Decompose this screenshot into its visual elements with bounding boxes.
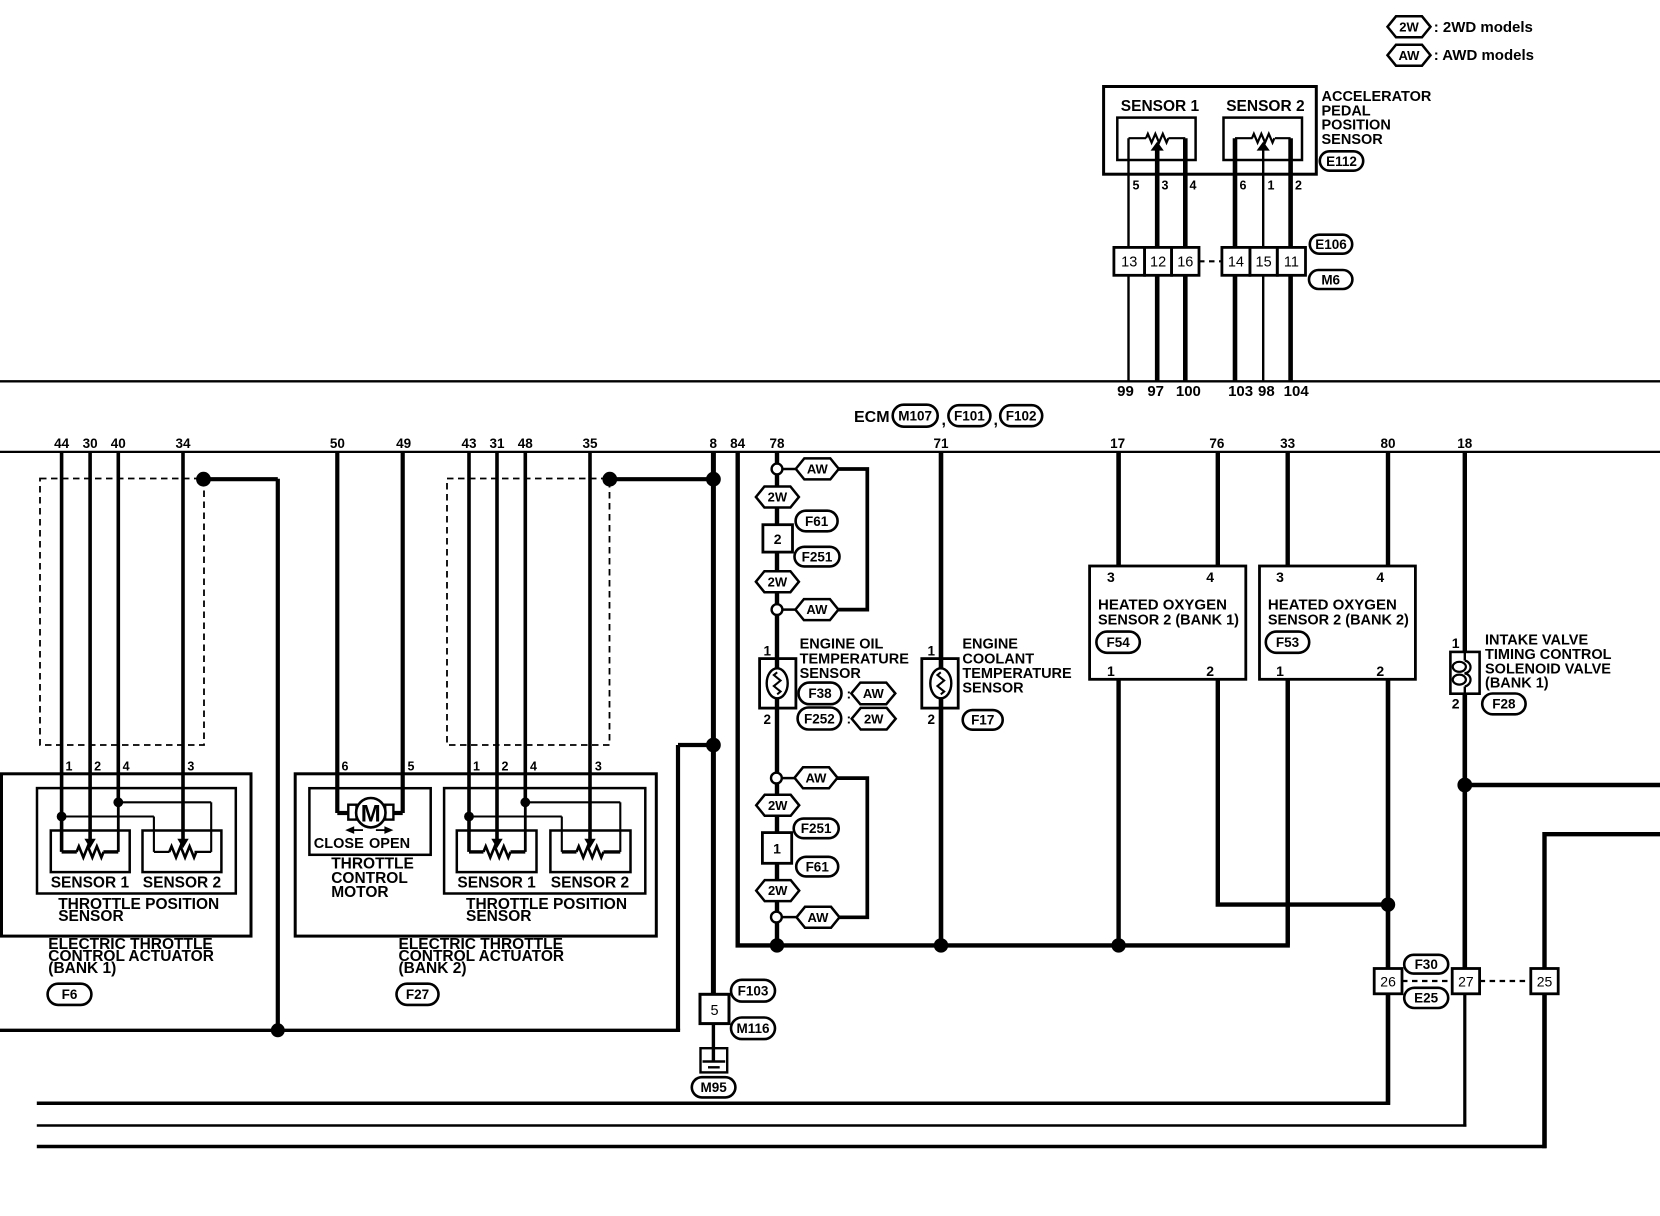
svg-text:1: 1 [66, 759, 73, 773]
svg-text:2W: 2W [768, 490, 788, 505]
svg-text:15: 15 [1256, 255, 1272, 271]
svg-text:TEMPERATURE: TEMPERATURE [962, 666, 1072, 682]
svg-text:49: 49 [396, 436, 411, 451]
svg-text:F38: F38 [808, 686, 832, 701]
svg-text:2: 2 [763, 712, 771, 727]
svg-text:SENSOR: SENSOR [962, 681, 1024, 697]
svg-text:M116: M116 [736, 1021, 770, 1036]
svg-text:2: 2 [774, 531, 782, 547]
svg-text:27: 27 [1458, 974, 1474, 990]
svg-text:F27: F27 [406, 987, 429, 1002]
svg-text:F251: F251 [802, 549, 833, 564]
svg-text:F102: F102 [1006, 409, 1037, 424]
svg-text:F17: F17 [971, 713, 994, 728]
svg-text:SENSOR: SENSOR [466, 908, 531, 925]
svg-text:AW: AW [1399, 48, 1421, 63]
svg-text:1: 1 [763, 644, 771, 659]
svg-text:E112: E112 [1326, 154, 1357, 169]
svg-text:SENSOR 2 (BANK 2): SENSOR 2 (BANK 2) [1268, 612, 1409, 628]
svg-text:2: 2 [94, 759, 101, 773]
svg-text:AW: AW [808, 910, 830, 925]
svg-text:26: 26 [1380, 974, 1396, 990]
svg-text:F103: F103 [738, 984, 769, 999]
svg-text:HEATED OXYGEN: HEATED OXYGEN [1098, 596, 1227, 613]
svg-text:30: 30 [83, 436, 98, 451]
svg-text:COOLANT: COOLANT [962, 651, 1034, 667]
svg-text:48: 48 [518, 436, 534, 451]
svg-text:40: 40 [111, 436, 126, 451]
svg-text:SENSOR: SENSOR [800, 666, 862, 682]
svg-text:104: 104 [1284, 383, 1310, 400]
svg-text:4: 4 [1190, 179, 1197, 193]
svg-text:E106: E106 [1315, 237, 1347, 252]
svg-text:44: 44 [54, 436, 70, 451]
svg-text:SENSOR 2: SENSOR 2 [551, 875, 629, 892]
svg-text:13: 13 [1121, 255, 1137, 271]
svg-text:AW: AW [806, 770, 828, 785]
svg-text:4: 4 [1376, 569, 1384, 585]
svg-text:E25: E25 [1414, 991, 1439, 1006]
svg-text:M6: M6 [1321, 272, 1340, 287]
svg-text:2W: 2W [1399, 19, 1419, 34]
svg-text:: AWD models: : AWD models [1434, 47, 1534, 64]
svg-text:1: 1 [1452, 635, 1460, 651]
svg-text:AW: AW [806, 602, 828, 617]
svg-text:2W: 2W [768, 883, 788, 898]
svg-text:,: , [942, 412, 946, 429]
svg-text:SENSOR 1: SENSOR 1 [457, 875, 536, 892]
svg-text:2W: 2W [768, 798, 788, 813]
svg-text:2W: 2W [768, 574, 788, 589]
svg-text:2: 2 [1295, 179, 1302, 193]
svg-text:,: , [994, 412, 998, 429]
svg-text:78: 78 [769, 436, 785, 451]
svg-text:MOTOR: MOTOR [331, 884, 388, 901]
svg-text:SENSOR 1: SENSOR 1 [1121, 98, 1200, 115]
svg-text:SENSOR: SENSOR [58, 908, 123, 925]
svg-text:3: 3 [1276, 569, 1284, 585]
svg-text:SENSOR: SENSOR [1322, 132, 1384, 148]
svg-text:34: 34 [175, 436, 191, 451]
svg-text:SENSOR 1: SENSOR 1 [51, 875, 130, 892]
svg-text:1: 1 [773, 841, 781, 857]
svg-text:4: 4 [530, 759, 537, 773]
svg-text:71: 71 [933, 436, 949, 451]
svg-text:12: 12 [1150, 255, 1166, 271]
svg-text:: 2WD models: : 2WD models [1434, 19, 1533, 36]
svg-text:F30: F30 [1415, 957, 1438, 972]
svg-text:99: 99 [1117, 383, 1134, 400]
svg-text:(BANK 1): (BANK 1) [1485, 676, 1549, 692]
svg-text:ECM: ECM [854, 409, 890, 426]
svg-text:80: 80 [1380, 436, 1395, 451]
svg-text:2W: 2W [864, 711, 884, 726]
svg-text:SENSOR 2 (BANK 1): SENSOR 2 (BANK 1) [1098, 612, 1239, 628]
svg-text:1: 1 [927, 644, 935, 659]
svg-text:6: 6 [342, 759, 349, 773]
svg-text:50: 50 [330, 436, 345, 451]
svg-text:17: 17 [1110, 436, 1125, 451]
svg-text:3: 3 [187, 759, 194, 773]
svg-text:F252: F252 [804, 711, 835, 726]
svg-text:F251: F251 [801, 821, 832, 836]
svg-text:F61: F61 [805, 514, 829, 529]
svg-text:25: 25 [1537, 974, 1553, 990]
svg-text:6: 6 [1240, 179, 1247, 193]
svg-text:3: 3 [1107, 569, 1115, 585]
svg-text:4: 4 [1206, 569, 1214, 585]
svg-text:AW: AW [863, 686, 885, 701]
svg-text:33: 33 [1280, 436, 1296, 451]
svg-text:M107: M107 [898, 409, 932, 424]
svg-text:F54: F54 [1106, 635, 1130, 650]
svg-text:103: 103 [1228, 383, 1253, 400]
svg-text:F101: F101 [954, 409, 985, 424]
svg-text:35: 35 [582, 436, 598, 451]
svg-text:OPEN: OPEN [369, 836, 410, 852]
svg-text:2: 2 [1452, 696, 1460, 712]
svg-text:1: 1 [473, 759, 480, 773]
svg-text:2: 2 [1206, 663, 1214, 679]
svg-text:1: 1 [1268, 179, 1275, 193]
svg-text:F28: F28 [1492, 697, 1516, 712]
svg-text:TEMPERATURE: TEMPERATURE [800, 651, 910, 667]
svg-text:5: 5 [710, 1003, 718, 1019]
svg-text:14: 14 [1228, 255, 1244, 271]
svg-text:43: 43 [461, 436, 477, 451]
svg-text:ENGINE OIL: ENGINE OIL [800, 637, 884, 653]
svg-text:3: 3 [595, 759, 602, 773]
svg-text:SENSOR 2: SENSOR 2 [1226, 98, 1304, 115]
svg-text:18: 18 [1457, 436, 1473, 451]
svg-text:97: 97 [1147, 383, 1164, 400]
svg-text:76: 76 [1209, 436, 1225, 451]
svg-text:31: 31 [489, 436, 505, 451]
svg-text:M: M [361, 800, 381, 827]
svg-text:M95: M95 [700, 1080, 727, 1095]
svg-text:(BANK 1): (BANK 1) [48, 960, 116, 977]
svg-text:(BANK 2): (BANK 2) [399, 960, 467, 977]
svg-text:2: 2 [1376, 663, 1384, 679]
svg-text:8: 8 [709, 436, 717, 451]
svg-text:1: 1 [1107, 663, 1115, 679]
svg-text:5: 5 [408, 759, 415, 773]
svg-text:CLOSE: CLOSE [314, 836, 364, 852]
svg-text:4: 4 [123, 759, 130, 773]
svg-text:HEATED OXYGEN: HEATED OXYGEN [1268, 596, 1397, 613]
svg-text:5: 5 [1133, 179, 1140, 193]
svg-text:F6: F6 [62, 987, 78, 1002]
svg-text:84: 84 [730, 436, 746, 451]
svg-text:11: 11 [1284, 255, 1299, 271]
svg-text:2: 2 [927, 712, 935, 727]
svg-text:F61: F61 [806, 859, 830, 874]
svg-text:98: 98 [1258, 383, 1275, 400]
svg-text:1: 1 [1276, 663, 1284, 679]
svg-text:SENSOR 2: SENSOR 2 [143, 875, 221, 892]
svg-text:F53: F53 [1276, 635, 1300, 650]
svg-text:2: 2 [502, 759, 509, 773]
svg-text:16: 16 [1177, 255, 1193, 271]
svg-text:AW: AW [807, 462, 829, 477]
svg-text:100: 100 [1176, 383, 1201, 400]
svg-text:3: 3 [1162, 179, 1169, 193]
svg-text:ENGINE: ENGINE [962, 637, 1018, 653]
